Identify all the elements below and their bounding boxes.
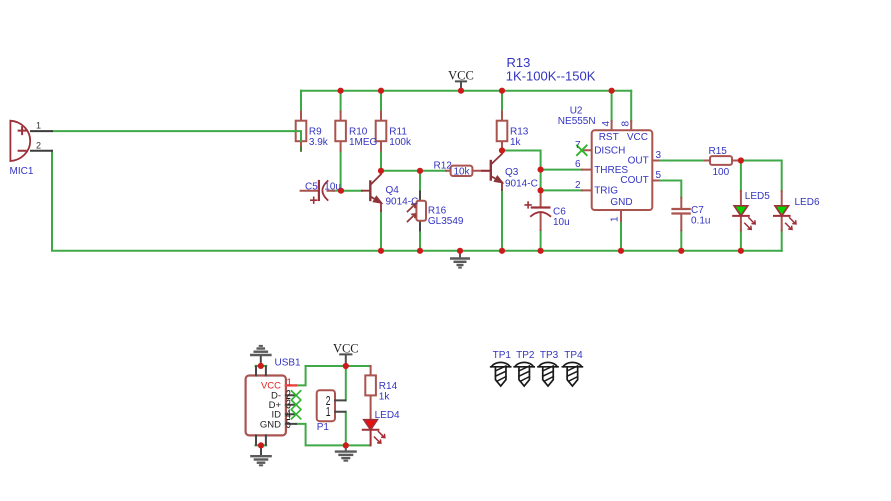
resistor R15 body	[710, 156, 732, 165]
svg-text:3.9k: 3.9k	[309, 137, 329, 148]
capacitor C6 leads	[540, 190, 542, 230]
power symbol VCC usb	[333, 341, 359, 366]
svg-text:GND: GND	[260, 419, 281, 430]
svg-text:R9: R9	[309, 126, 322, 137]
resistor R13 body	[497, 121, 508, 142]
wire Q4 collector node to R12	[381, 170, 446, 172]
svg-text:R10: R10	[349, 126, 368, 137]
resistor R9 leads	[300, 112, 302, 146]
wire C7 bottom	[680, 230, 682, 250]
resistor R14 leads	[370, 366, 372, 420]
wire to TRIG pin2	[541, 189, 582, 191]
svg-text:R14: R14	[379, 381, 398, 392]
no-connect X pins 2-4	[292, 391, 301, 419]
svg-text:C7: C7	[691, 205, 704, 216]
wire R11 bottom to Q4 collector	[380, 151, 382, 171]
svg-text:TP1: TP1	[493, 350, 512, 361]
svg-text:C6: C6	[553, 207, 566, 218]
junction dots usb section	[258, 363, 349, 449]
svg-text:GL3549: GL3549	[428, 216, 464, 227]
resistor R10 leads	[340, 112, 342, 151]
wire R13 top lead	[501, 91, 503, 112]
wire node to Q4 base	[341, 190, 362, 192]
LED5 leads	[740, 191, 742, 231]
svg-text:6: 6	[575, 159, 581, 170]
op-amp U2 NE555N body	[592, 130, 653, 210]
junction dots top section	[338, 88, 745, 254]
svg-text:2: 2	[36, 140, 41, 150]
capacitor C6	[525, 202, 550, 216]
P1 pin stubs	[335, 400, 345, 411]
wire OUT pin3 to R15	[658, 160, 704, 162]
wire C6 bottom	[540, 230, 542, 251]
svg-text:DISCH: DISCH	[594, 145, 625, 156]
resistor R16 leads	[419, 191, 421, 230]
svg-text:MIC1: MIC1	[10, 166, 34, 177]
svg-text:P1: P1	[317, 422, 330, 433]
wire USB top shield node	[256, 365, 267, 367]
connector P1 body	[317, 390, 335, 421]
wire LED5 bottom	[740, 231, 742, 251]
ground symbol below USB1	[251, 456, 270, 465]
capacitor C5 leads	[301, 190, 334, 192]
LED4	[363, 420, 385, 446]
svg-text:7: 7	[575, 140, 581, 151]
wire MIC1 pin1 to R9	[52, 131, 301, 141]
svg-text:R16: R16	[428, 205, 447, 216]
svg-text:LED5: LED5	[745, 191, 770, 202]
test point TP2	[514, 362, 534, 386]
wire R9 top lead	[300, 91, 302, 112]
svg-text:TP4: TP4	[564, 350, 583, 361]
USB1 shield stem bottom	[260, 445, 262, 455]
resistor R11 leads	[380, 112, 382, 151]
svg-text:R12: R12	[434, 161, 453, 172]
resistor R12 leads	[446, 170, 491, 172]
svg-text:TP2: TP2	[516, 350, 535, 361]
wire R16 bottom	[419, 230, 421, 250]
svg-text:1: 1	[610, 216, 621, 222]
U2 pin numbers	[575, 121, 662, 223]
svg-text:4: 4	[601, 121, 612, 127]
test point TP4	[562, 362, 582, 386]
svg-text:10u: 10u	[553, 217, 570, 228]
svg-text:OUT: OUT	[628, 155, 649, 166]
microphone MIC1	[10, 121, 30, 161]
svg-text:VCC: VCC	[333, 341, 359, 355]
capacitor C7 leads	[680, 198, 682, 231]
wire VCC pin8	[630, 91, 632, 121]
wire R10 top lead	[340, 91, 342, 112]
test point TP1	[491, 362, 511, 386]
svg-text:1k: 1k	[379, 391, 391, 402]
wire R11 top lead	[380, 91, 382, 112]
wire COUT pin5 to C7	[658, 181, 681, 198]
P1 pin numbers	[326, 394, 331, 419]
wire U2 GND pin1	[620, 221, 622, 251]
ground symbol main rail	[451, 251, 469, 268]
capacitor C5	[311, 181, 328, 203]
wire overlap below R9	[300, 141, 302, 151]
USB1 shield stubs bottom	[256, 435, 266, 444]
svg-text:1: 1	[286, 376, 292, 388]
wire VCC to P1 pin2	[345, 366, 347, 400]
svg-text:Q4: Q4	[386, 185, 400, 196]
svg-text:0.1u: 0.1u	[691, 216, 710, 227]
svg-text:1k: 1k	[510, 137, 522, 148]
svg-text:1: 1	[326, 405, 331, 419]
transistor Q3	[482, 151, 502, 191]
svg-text:USB1: USB1	[275, 357, 302, 368]
svg-text:3: 3	[656, 150, 662, 161]
svg-text:9014-C: 9014-C	[386, 197, 419, 208]
svg-text:TP3: TP3	[540, 350, 559, 361]
SECTION-USB	[256, 366, 371, 446]
wire C5 right lead	[333, 190, 341, 192]
svg-text:1K-100K--150K: 1K-100K--150K	[506, 68, 596, 83]
svg-text:2: 2	[575, 180, 581, 191]
wire LED5 top	[740, 161, 742, 192]
LED6	[774, 206, 796, 230]
resistor R10 body	[335, 121, 346, 142]
resistor R9 body	[296, 121, 307, 142]
LED5	[733, 206, 755, 230]
svg-text:100k: 100k	[389, 137, 412, 148]
svg-text:TRIG: TRIG	[594, 185, 618, 196]
wire LED6 bottom	[781, 231, 783, 251]
power symbol VCC top	[448, 69, 474, 91]
USB1 pin1 red wire	[286, 384, 296, 386]
MIC1 pin stubs	[31, 131, 52, 151]
svg-text:R11: R11	[389, 126, 407, 137]
U2 pin names	[594, 132, 649, 208]
wire R15 to LED6 top	[737, 161, 782, 192]
svg-text:NE555N: NE555N	[558, 116, 596, 127]
svg-text:10k: 10k	[453, 167, 470, 178]
no-connect X on DISCH pin7	[577, 146, 587, 156]
svg-text:5: 5	[286, 417, 291, 431]
ground symbol above USB1 (inverted)	[251, 346, 270, 355]
svg-text:LED6: LED6	[795, 197, 820, 208]
photoresistor R16 body	[408, 201, 427, 222]
wire MIC1 pin2 ground rail	[52, 151, 782, 251]
svg-text:Q3: Q3	[505, 167, 519, 178]
svg-text:1: 1	[36, 121, 41, 131]
svg-text:10u: 10u	[324, 181, 341, 192]
test point TP3	[538, 362, 558, 386]
wire USB pin1 to VCC rail	[296, 366, 306, 385]
svg-text:RST: RST	[599, 132, 619, 143]
wire MIC1 pin1 over R9	[295, 131, 301, 141]
ground symbol below P1	[336, 445, 356, 460]
svg-text:5: 5	[656, 170, 662, 181]
transistor Q4	[362, 171, 381, 211]
wire R16 top	[419, 171, 421, 192]
USB1 connector body	[246, 376, 286, 436]
U2 pin leads	[582, 121, 659, 221]
USB1 shield stem top	[260, 356, 262, 366]
svg-text:8: 8	[620, 121, 631, 127]
svg-text:LED4: LED4	[375, 410, 400, 421]
wire Q3 emitter to rail	[501, 190, 503, 251]
resistor R13 leads	[501, 112, 503, 151]
wire R10 bottom to C5 node	[340, 151, 342, 191]
USB1 shield stubs top	[256, 367, 266, 376]
resistor R12 body	[451, 166, 473, 176]
wire to THRES pin6	[541, 169, 582, 171]
wire RST pin4	[611, 91, 613, 121]
svg-text:COUT: COUT	[620, 175, 648, 186]
svg-text:VCC: VCC	[627, 132, 648, 143]
svg-text:GND: GND	[610, 197, 632, 208]
resistor R11 body	[376, 121, 387, 142]
wire ground rail to LED4	[346, 444, 370, 446]
wire USB GND pin5 to ground rail	[296, 424, 346, 446]
resistor R14 body	[365, 375, 376, 395]
resistor R15 leads	[705, 160, 737, 162]
wire P1 pin1 to ground rail	[345, 412, 347, 446]
capacitor C7	[673, 209, 690, 214]
svg-text:100: 100	[713, 167, 730, 178]
wire Q3 collector node	[502, 151, 541, 191]
svg-text:9014-C: 9014-C	[505, 179, 538, 190]
svg-text:C5: C5	[305, 181, 318, 192]
svg-text:R13: R13	[510, 126, 529, 137]
SECTION-TOP	[52, 91, 782, 251]
wire Q4 emitter to rail	[380, 211, 382, 251]
wire USB bottom shield node	[256, 444, 267, 446]
svg-text:1MEG: 1MEG	[349, 137, 378, 148]
wire VCC top rail	[301, 90, 631, 92]
svg-text:R15: R15	[709, 146, 728, 157]
LED6 leads	[781, 191, 783, 231]
USB1 pin stubs	[286, 395, 296, 424]
wire VCC rail to R14	[306, 365, 371, 367]
